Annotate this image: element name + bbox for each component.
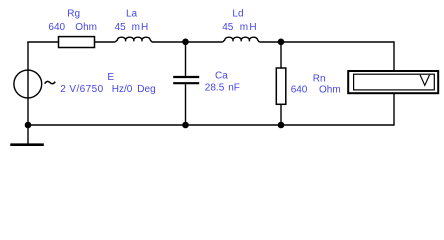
wire: Rg to La xyxy=(95,41,116,43)
svg-text:La: La xyxy=(126,8,138,19)
capacitor Ca: bottom lead xyxy=(185,84,187,125)
wire: Ld to node B xyxy=(259,41,281,43)
resistor Rn: top lead xyxy=(280,42,282,68)
svg-text:E: E xyxy=(107,72,114,83)
AC source E circle xyxy=(14,70,42,98)
wire: voltmeter bottom to bottom wire xyxy=(393,93,395,126)
svg-text:Ohm: Ohm xyxy=(319,84,341,95)
junction dot bottom-right (Rn) xyxy=(278,122,285,129)
bottom wire xyxy=(28,124,394,126)
wire: top horizontal from source to resistor Rg xyxy=(27,41,58,43)
svg-text:Deg: Deg xyxy=(137,84,155,95)
svg-text:640: 640 xyxy=(291,84,308,95)
wire: node B to voltmeter top corner xyxy=(281,42,394,71)
svg-text:28.5: 28.5 xyxy=(205,82,225,93)
ground lead xyxy=(27,125,29,144)
svg-text:mH: mH xyxy=(132,22,150,33)
capacitor Ca: top lead xyxy=(185,42,187,76)
voltmeter inner box xyxy=(354,74,435,90)
svg-text:Rg: Rg xyxy=(67,8,80,19)
ground bar xyxy=(10,143,44,146)
resistor Rn xyxy=(276,68,286,104)
capacitor Ca: bottom plate xyxy=(173,82,199,84)
capacitor Ca: top plate xyxy=(173,76,199,78)
voltmeter outer box xyxy=(348,71,438,93)
resistor Rn: bottom lead xyxy=(280,104,282,125)
svg-text:Ca: Ca xyxy=(215,70,228,81)
svg-text:Ld: Ld xyxy=(232,8,243,19)
svg-text:Hz/0: Hz/0 xyxy=(112,84,133,95)
svg-text:640: 640 xyxy=(48,22,65,33)
svg-text:Rn: Rn xyxy=(313,73,326,84)
inductor La xyxy=(115,37,152,42)
svg-text:nF: nF xyxy=(228,82,240,93)
wire: node A to Ld xyxy=(186,41,223,43)
svg-text:Ohm: Ohm xyxy=(75,22,97,33)
voltmeter V glyph xyxy=(420,75,429,86)
node B junction dot xyxy=(278,39,285,46)
junction dot bottom-left xyxy=(25,122,32,129)
junction dot bottom-middle (Ca) xyxy=(182,122,189,129)
svg-text:45: 45 xyxy=(222,22,234,33)
AC source tilde xyxy=(45,81,56,83)
resistor Rg xyxy=(59,37,95,48)
svg-text:2 V/6750: 2 V/6750 xyxy=(60,84,103,95)
inductor Ld xyxy=(223,37,260,42)
svg-text:mH: mH xyxy=(240,22,258,33)
wire: La to node A xyxy=(152,41,186,43)
wire: left vertical from top wire to bottom wire xyxy=(27,42,29,125)
node A junction dot xyxy=(182,39,189,46)
svg-text:45: 45 xyxy=(115,22,127,33)
